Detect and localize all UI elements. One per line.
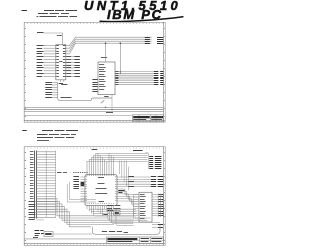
sheet 1 header reference mark [22,10,27,11]
address bus loop (lower left) [45,82,112,101]
wire drops right of U30 [120,161,129,191]
handwritten title "UNT1.5510" [84,0,181,13]
IC U1 right net label wires [66,56,80,77]
connector J1 pins, wires and net labels [29,151,56,218]
IC U1 left pin wires and net labels [37,45,59,77]
IC U2 internal pin name rows [99,64,106,90]
wire: top net to U1 clock stub [44,33,63,45]
IC U1 right pin marks [63,45,66,77]
IC U30 inner pin ticks [86,175,116,204]
wires: bottom bus lines [159,222,161,227]
wire: bus drop at x120 [120,42,122,74]
IC U30 left pin labels [73,176,85,201]
crystal X1 [114,210,120,215]
video bus labels [92,149,143,151]
handwritten title "IBM PC" [100,7,184,22]
sheet 1 title block [24,115,163,122]
sheet 2 header reference mark [22,130,26,131]
IC U31 pin rows [134,194,146,219]
IC U30 internal text [95,177,107,202]
pin numbers above U30 [57,172,88,173]
bus loop (sheet 2 bottom) [92,225,160,235]
wire drops: U30 bottom pins [87,206,113,216]
connector J1 body [35,151,56,219]
wire elbows: U30 top pins to video bus [87,153,148,174]
wire drops: bus to U30 top pins [98,153,113,174]
wire: bottom rail [24,238,106,240]
resistor pack RP1 and gates (bottom left) [29,219,93,238]
wires below U31 [152,224,163,228]
ground at U1 [59,80,63,84]
IC U1 body [56,45,66,80]
wires: U30 bottom to IC U31 [67,182,136,226]
wire elbows: J1 lower rows to bottom bus [36,199,160,227]
net label RESET (sheet1 top left) [37,32,44,33]
IC U2 left net labels [92,79,97,92]
ground at U2 [104,95,112,108]
wire bus: U2 to right edge connector labels (8 lines) [115,71,163,85]
IC U30 right pin wires and labels [117,176,163,206]
IC U31 body [139,192,152,222]
sheet 1 header text block [37,10,78,17]
wire: bus drop to U2 top [101,42,107,62]
connector J2 (right of U31) [152,194,163,218]
net labels below U30 [103,205,120,215]
sheet 2 title block [107,237,164,243]
IC U30 right side label [118,190,124,193]
sheet 2 header text block [37,130,78,141]
IC U2 body [98,62,115,95]
net labels (sheet 2 upper right) [146,152,162,169]
data bus (sheet 1 bottom, 3 lines) [24,100,163,113]
IC U30 (CRT controller) body [85,175,117,206]
net label below U1 [61,80,67,85]
wire bus: U1 to top address bus (4 lines) [66,37,163,54]
